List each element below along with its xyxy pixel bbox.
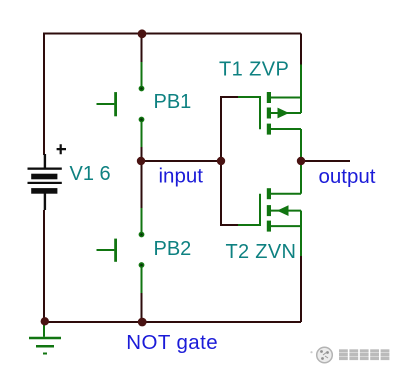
- svg-text:PB2: PB2: [154, 238, 192, 260]
- svg-text:output: output: [319, 165, 376, 188]
- svg-text:V1 6: V1 6: [70, 163, 111, 185]
- svg-text:T2 ZVN: T2 ZVN: [226, 241, 297, 263]
- svg-text:PB1: PB1: [154, 91, 192, 113]
- svg-text:T1 ZVP: T1 ZVP: [219, 58, 289, 80]
- svg-text:input: input: [159, 164, 204, 187]
- svg-text:NOT gate: NOT gate: [126, 331, 218, 354]
